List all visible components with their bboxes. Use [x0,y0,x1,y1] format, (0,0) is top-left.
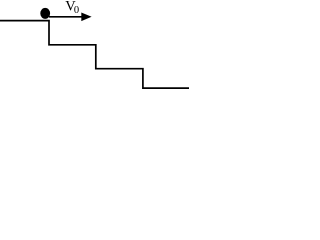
velocity arrow shaft [49,16,83,18]
velocity arrow head [81,13,91,22]
ball [40,8,50,19]
svg-text:0: 0 [74,5,79,16]
staircase steps outline [0,21,189,89]
